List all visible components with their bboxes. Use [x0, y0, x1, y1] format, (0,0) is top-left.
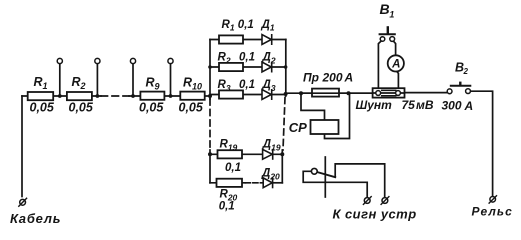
svg-text:К сигн устр: К сигн устр: [333, 207, 417, 222]
svg-text:мВ: мВ: [416, 98, 434, 112]
svg-text:Рельс: Рельс: [472, 205, 513, 219]
svg-text:0,05: 0,05: [30, 101, 55, 115]
svg-text:300: 300: [442, 99, 462, 113]
svg-text:0,05: 0,05: [139, 101, 164, 115]
svg-text:0,1: 0,1: [225, 162, 241, 174]
svg-text:СР: СР: [289, 120, 307, 135]
svg-text:0,1: 0,1: [219, 201, 235, 213]
svg-text:75: 75: [402, 98, 416, 112]
svg-text:Пр: Пр: [303, 71, 319, 85]
svg-text:0,1: 0,1: [238, 19, 254, 31]
svg-text:200: 200: [322, 71, 343, 85]
svg-text:0,05: 0,05: [69, 101, 94, 115]
svg-text:А: А: [391, 58, 400, 70]
svg-text:0,1: 0,1: [239, 52, 255, 64]
svg-text:0,05: 0,05: [179, 101, 204, 115]
svg-text:А: А: [464, 99, 474, 113]
svg-text:А: А: [344, 71, 354, 85]
svg-text:0,1: 0,1: [239, 79, 255, 91]
svg-text:Кабель: Кабель: [10, 211, 61, 226]
svg-text:Шунт: Шунт: [356, 98, 393, 112]
